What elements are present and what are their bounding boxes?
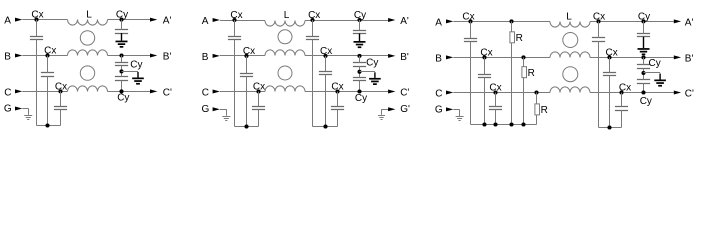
svg-text:B: B [4,51,11,62]
svg-text:L: L [566,11,572,22]
svg-text:Cy: Cy [640,96,652,107]
svg-text:Cx: Cx [31,10,43,21]
svg-text:G': G' [400,104,410,115]
svg-text:A': A' [400,16,409,27]
svg-text:Cy: Cy [354,10,366,21]
svg-text:B: B [202,52,209,63]
svg-text:Cy: Cy [649,58,661,69]
svg-text:B': B' [685,53,694,64]
svg-text:Cy: Cy [355,93,367,104]
svg-text:R: R [541,105,548,116]
svg-text:Cx: Cx [243,46,255,57]
svg-text:R: R [528,68,535,79]
svg-text:A: A [4,16,11,27]
svg-text:Cx: Cx [331,81,343,92]
svg-text:B': B' [400,52,409,63]
svg-text:B: B [435,53,442,64]
svg-text:G: G [4,103,12,114]
svg-text:C: C [435,88,442,99]
svg-text:Cx: Cx [605,47,617,58]
svg-text:Cx: Cx [619,82,631,93]
svg-text:L: L [284,10,290,21]
svg-text:A: A [435,17,442,28]
svg-text:G: G [202,104,210,115]
svg-text:R: R [516,33,523,44]
svg-text:Cy: Cy [117,92,129,103]
svg-text:Cx: Cx [44,45,56,56]
svg-text:Cx: Cx [462,11,474,22]
svg-text:B': B' [163,51,172,62]
svg-text:Cx: Cx [489,82,501,93]
svg-text:Cy: Cy [130,59,142,70]
svg-text:C': C' [400,87,409,98]
svg-text:A': A' [163,16,172,27]
svg-text:Cy: Cy [366,57,378,68]
svg-text:Cx: Cx [253,81,265,92]
svg-text:C: C [202,87,209,98]
svg-text:Cy: Cy [116,10,128,21]
svg-text:C': C' [163,87,172,98]
svg-text:Cx: Cx [230,10,242,21]
svg-text:C': C' [685,88,694,99]
svg-text:Cy: Cy [638,11,650,22]
svg-text:L: L [86,10,92,21]
svg-text:A': A' [685,17,694,28]
svg-text:Cx: Cx [55,81,67,92]
svg-text:Cx: Cx [480,47,492,58]
svg-text:A: A [202,16,209,27]
svg-text:Cx: Cx [308,10,320,21]
svg-text:G: G [435,104,443,115]
svg-text:C: C [4,87,11,98]
svg-text:Cx: Cx [593,11,605,22]
svg-text:Cx: Cx [320,46,332,57]
